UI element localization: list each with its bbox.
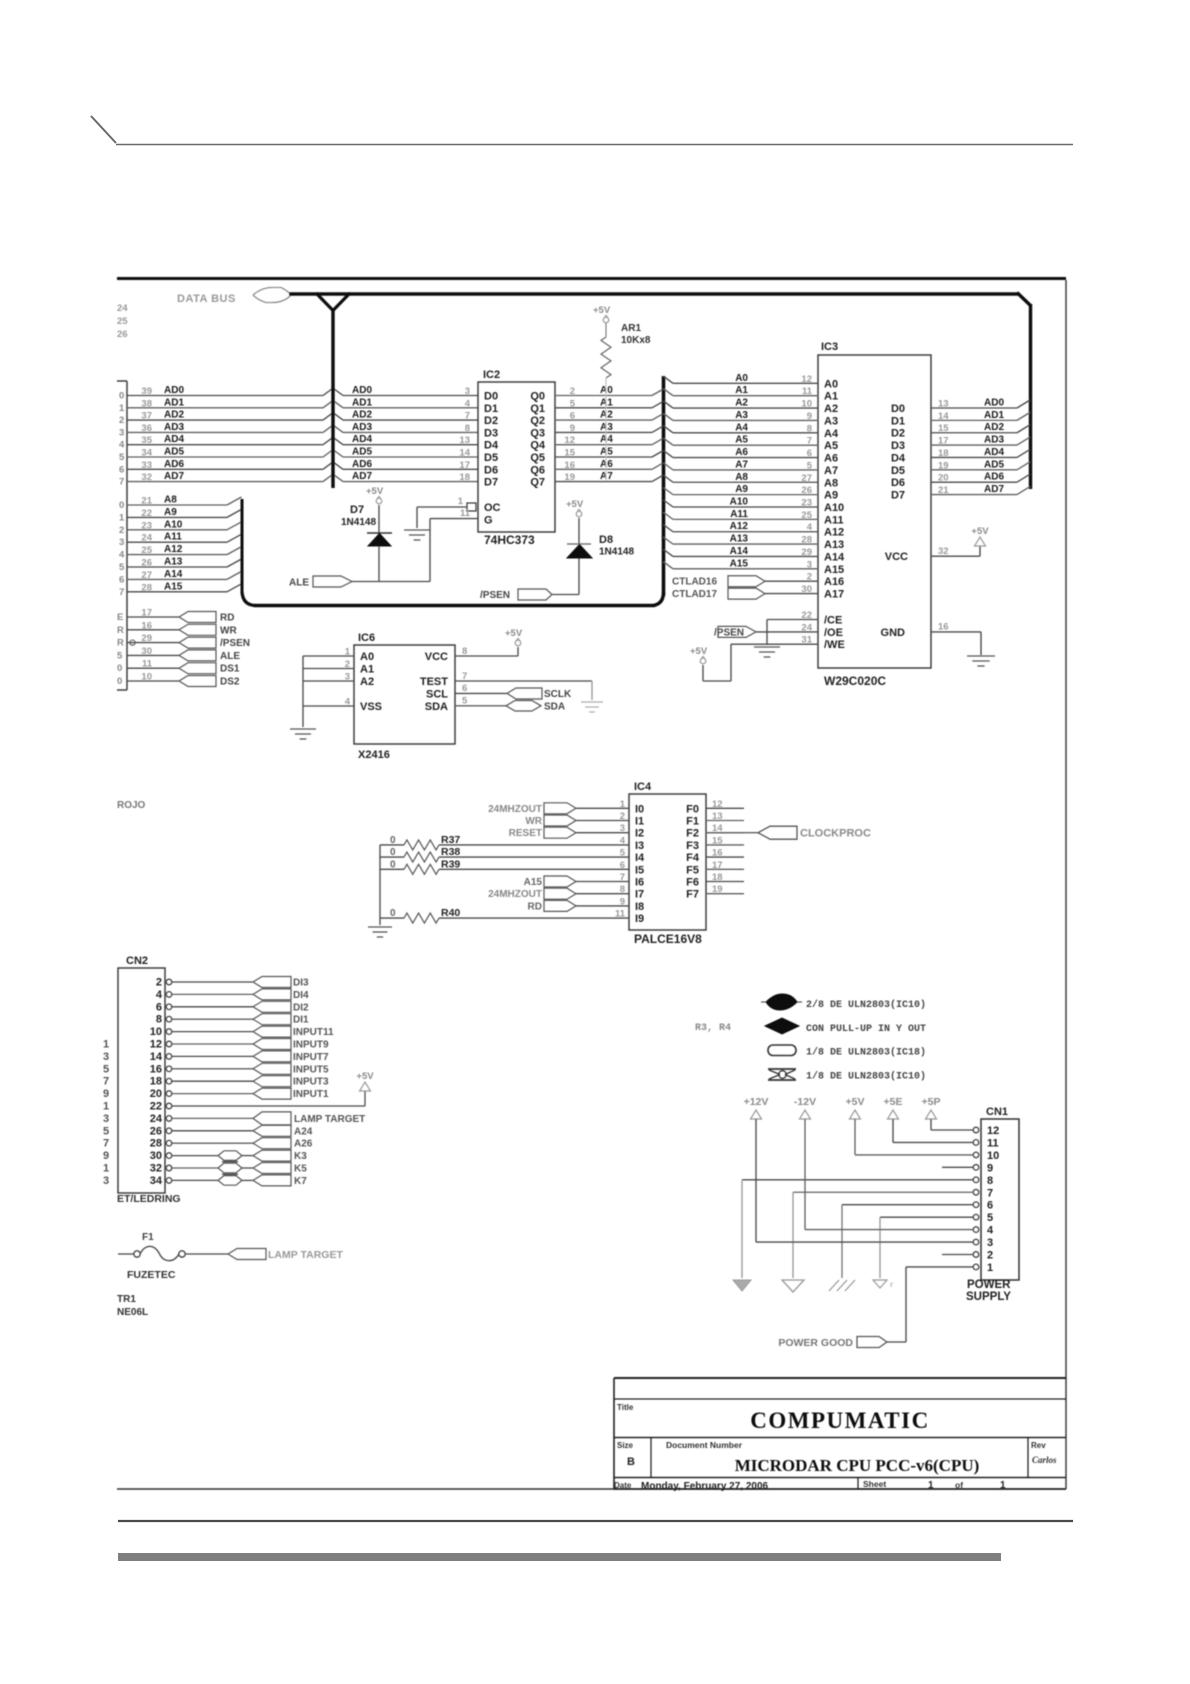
svg-text:I6: I6 <box>635 877 644 889</box>
svg-text:9: 9 <box>987 1162 993 1174</box>
svg-text:10: 10 <box>987 1150 999 1162</box>
svg-text:21: 21 <box>141 496 152 507</box>
svg-text:AD5: AD5 <box>984 459 1004 470</box>
svg-text:AD5: AD5 <box>164 447 184 458</box>
svg-text:Date: Date <box>614 1481 632 1490</box>
svg-text:33: 33 <box>141 460 152 471</box>
svg-text:F5: F5 <box>686 864 699 876</box>
svg-text:AD1: AD1 <box>352 397 372 408</box>
svg-text:3: 3 <box>465 386 470 397</box>
svg-text:A2: A2 <box>360 676 374 688</box>
svg-text:D2: D2 <box>891 428 905 440</box>
svg-text:AD2: AD2 <box>984 422 1004 433</box>
svg-text:WR: WR <box>525 816 542 827</box>
svg-text:A6: A6 <box>600 459 613 470</box>
svg-text:A11: A11 <box>164 532 182 543</box>
svg-text:NE06L: NE06L <box>117 1307 148 1318</box>
svg-text:Rev: Rev <box>1031 1441 1046 1450</box>
svg-text:0: 0 <box>117 663 122 674</box>
svg-text:POWER: POWER <box>967 1279 1011 1291</box>
svg-text:A1: A1 <box>824 391 838 403</box>
svg-text:I4: I4 <box>635 852 645 864</box>
svg-text:32: 32 <box>938 546 949 557</box>
svg-text:5: 5 <box>117 650 123 661</box>
svg-text:24: 24 <box>141 533 152 544</box>
svg-text:R3, R4: R3, R4 <box>695 1023 731 1034</box>
svg-text:AD7: AD7 <box>352 471 372 482</box>
svg-text:1: 1 <box>1000 1480 1006 1491</box>
svg-text:DS1: DS1 <box>220 664 240 675</box>
svg-text:A1: A1 <box>360 664 374 676</box>
svg-text:SCL: SCL <box>426 688 448 700</box>
svg-text:INPUT9: INPUT9 <box>293 1040 329 1051</box>
svg-text:ALE: ALE <box>220 651 240 662</box>
svg-text:26: 26 <box>141 558 152 569</box>
svg-text:18: 18 <box>150 1076 162 1088</box>
svg-text:IC2: IC2 <box>483 369 500 381</box>
svg-text:30: 30 <box>150 1150 162 1162</box>
svg-text:COMPUMATIC: COMPUMATIC <box>750 1408 929 1433</box>
svg-text:AD4: AD4 <box>984 447 1004 458</box>
svg-text:I5: I5 <box>635 864 644 876</box>
svg-text:D6: D6 <box>891 477 905 489</box>
svg-text:1: 1 <box>458 496 464 507</box>
svg-text:D0: D0 <box>891 403 905 415</box>
svg-text:5: 5 <box>807 460 813 471</box>
svg-text:9: 9 <box>103 1088 109 1100</box>
svg-text:6: 6 <box>119 464 124 475</box>
svg-text:+5V: +5V <box>846 1096 865 1108</box>
svg-text:AD1: AD1 <box>984 410 1004 421</box>
svg-text:5: 5 <box>987 1212 993 1224</box>
svg-text:0: 0 <box>117 676 122 687</box>
svg-text:A8: A8 <box>164 495 177 506</box>
svg-text:4: 4 <box>156 989 163 1001</box>
svg-text:A26: A26 <box>294 1139 313 1150</box>
svg-text:D3: D3 <box>484 427 498 439</box>
svg-text:15: 15 <box>938 423 949 434</box>
svg-text:5: 5 <box>119 452 125 463</box>
svg-text:I2: I2 <box>635 828 644 840</box>
svg-text:Monday, February 27, 2006: Monday, February 27, 2006 <box>641 1481 769 1492</box>
svg-text:AD6: AD6 <box>164 459 184 470</box>
svg-text:34: 34 <box>150 1175 163 1187</box>
svg-text:+5V: +5V <box>690 646 708 657</box>
svg-text:A13: A13 <box>164 557 183 568</box>
svg-text:5: 5 <box>103 1063 109 1075</box>
svg-text:1: 1 <box>987 1262 993 1274</box>
svg-text:11: 11 <box>142 659 153 670</box>
svg-text:A10: A10 <box>824 502 844 514</box>
svg-text:7: 7 <box>987 1187 993 1199</box>
svg-text:B: B <box>627 1456 635 1468</box>
svg-text:4: 4 <box>987 1225 994 1237</box>
svg-text:R39: R39 <box>441 858 460 870</box>
svg-text:A0: A0 <box>600 385 613 396</box>
svg-text:2: 2 <box>156 977 162 989</box>
svg-text:A4: A4 <box>600 434 613 445</box>
svg-text:/PSEN: /PSEN <box>220 638 250 649</box>
svg-text:AD0: AD0 <box>164 385 184 396</box>
svg-text:12: 12 <box>564 435 575 446</box>
svg-text:D3: D3 <box>891 440 905 452</box>
svg-text:R: R <box>117 638 124 649</box>
svg-text:A24: A24 <box>294 1126 313 1137</box>
svg-text:CTLAD17: CTLAD17 <box>672 589 717 600</box>
svg-text:27: 27 <box>801 473 812 484</box>
svg-text:DI1: DI1 <box>293 1015 309 1026</box>
svg-text:AD2: AD2 <box>164 410 184 421</box>
svg-text:RD: RD <box>220 613 234 624</box>
svg-text:G: G <box>484 515 493 527</box>
svg-text:-12V: -12V <box>794 1096 816 1108</box>
svg-text:A3: A3 <box>600 422 613 433</box>
svg-text:2: 2 <box>570 386 575 397</box>
svg-text:D0: D0 <box>484 391 498 403</box>
svg-text:14: 14 <box>459 448 470 459</box>
svg-text:F0: F0 <box>686 803 699 815</box>
svg-text:Title: Title <box>617 1403 634 1412</box>
svg-text:K3: K3 <box>294 1151 307 1162</box>
svg-text:AD0: AD0 <box>984 398 1004 409</box>
svg-text:D1: D1 <box>484 403 498 415</box>
svg-text:Q4: Q4 <box>530 440 546 452</box>
svg-text:D7: D7 <box>891 490 905 502</box>
svg-text:Q0: Q0 <box>530 391 545 403</box>
svg-text:r: r <box>890 1280 893 1289</box>
svg-text:12: 12 <box>801 374 812 385</box>
svg-text:3: 3 <box>119 427 124 438</box>
svg-text:D1: D1 <box>891 415 905 427</box>
svg-text:29: 29 <box>801 547 812 558</box>
svg-text:A10: A10 <box>164 519 183 530</box>
svg-text:13: 13 <box>938 399 949 410</box>
svg-text:8: 8 <box>156 1014 162 1026</box>
svg-text:A14: A14 <box>164 569 183 580</box>
svg-text:INPUT3: INPUT3 <box>293 1077 329 1088</box>
svg-text:/PSEN: /PSEN <box>480 590 510 601</box>
svg-text:R38: R38 <box>441 846 460 858</box>
svg-text:+12V: +12V <box>744 1096 769 1108</box>
svg-text:A5: A5 <box>600 447 613 458</box>
svg-text:8: 8 <box>987 1175 993 1187</box>
svg-text:23: 23 <box>141 520 152 531</box>
svg-text:A6: A6 <box>735 447 748 458</box>
svg-text:A10: A10 <box>730 497 749 508</box>
svg-text:AD0: AD0 <box>352 385 372 396</box>
svg-text:7: 7 <box>807 436 812 447</box>
svg-text:F2: F2 <box>686 828 699 840</box>
svg-text:DI2: DI2 <box>293 1002 309 1013</box>
svg-text:13: 13 <box>459 435 470 446</box>
svg-text:I1: I1 <box>635 816 644 828</box>
svg-text:11: 11 <box>802 386 813 397</box>
svg-text:5: 5 <box>570 398 576 409</box>
svg-text:2: 2 <box>119 525 124 536</box>
svg-text:F7: F7 <box>686 889 699 901</box>
svg-text:AD7: AD7 <box>984 484 1004 495</box>
svg-text:Q5: Q5 <box>530 452 545 464</box>
svg-text:1: 1 <box>103 1101 109 1113</box>
svg-text:20: 20 <box>150 1088 162 1100</box>
svg-text:1: 1 <box>103 1039 109 1051</box>
svg-text:16: 16 <box>150 1063 162 1075</box>
svg-text:2: 2 <box>987 1250 993 1262</box>
svg-text:A7: A7 <box>735 459 748 470</box>
svg-text:28: 28 <box>141 582 152 593</box>
svg-text:X2416: X2416 <box>358 749 390 761</box>
svg-text:F1: F1 <box>142 1232 154 1243</box>
svg-text:CLOCKPROC: CLOCKPROC <box>800 828 871 840</box>
svg-text:ALE: ALE <box>289 578 309 589</box>
svg-text:CTLAD16: CTLAD16 <box>672 577 717 588</box>
svg-text:+5V: +5V <box>566 499 584 510</box>
svg-text:26: 26 <box>117 329 128 340</box>
svg-text:D7: D7 <box>484 477 498 489</box>
svg-text:6: 6 <box>807 448 812 459</box>
svg-text:A4: A4 <box>735 422 748 433</box>
svg-text:A2: A2 <box>824 403 838 415</box>
svg-text:24: 24 <box>150 1113 163 1125</box>
svg-text:D6: D6 <box>484 464 498 476</box>
svg-text:W29C020C: W29C020C <box>824 674 886 688</box>
svg-text:SDA: SDA <box>544 702 565 713</box>
svg-text:1/8 DE ULN2803(IC10): 1/8 DE ULN2803(IC10) <box>806 1070 926 1082</box>
svg-text:A12: A12 <box>824 527 844 539</box>
svg-text:R37: R37 <box>441 834 460 846</box>
svg-text:POWER GOOD: POWER GOOD <box>778 1337 853 1349</box>
svg-text:GND: GND <box>881 627 906 639</box>
svg-text:1: 1 <box>119 403 125 414</box>
svg-text:10: 10 <box>801 399 812 410</box>
svg-text:A5: A5 <box>824 440 838 452</box>
svg-text:ET/LEDRING: ET/LEDRING <box>117 1193 181 1205</box>
svg-text:5: 5 <box>103 1125 109 1137</box>
svg-text:30: 30 <box>801 584 812 595</box>
svg-text:7: 7 <box>119 587 124 598</box>
svg-text:Q2: Q2 <box>530 415 545 427</box>
svg-text:D7: D7 <box>350 504 364 516</box>
svg-text:7: 7 <box>103 1138 109 1150</box>
svg-text:15: 15 <box>564 448 575 459</box>
svg-text:A7: A7 <box>600 471 613 482</box>
svg-text:11: 11 <box>987 1137 999 1149</box>
svg-text:SUPPLY: SUPPLY <box>966 1291 1011 1303</box>
svg-text:CN2: CN2 <box>126 955 148 967</box>
svg-text:D2: D2 <box>484 415 498 427</box>
svg-text:8: 8 <box>462 646 467 657</box>
svg-text:27: 27 <box>141 570 152 581</box>
svg-text:A7: A7 <box>824 465 838 477</box>
svg-text:A9: A9 <box>164 507 177 518</box>
svg-text:PALCE16V8: PALCE16V8 <box>634 932 702 946</box>
svg-text:of: of <box>955 1480 963 1490</box>
svg-text:TR1: TR1 <box>117 1294 136 1305</box>
svg-text:25: 25 <box>117 316 128 327</box>
svg-text:A15: A15 <box>164 581 183 592</box>
svg-text:VSS: VSS <box>360 701 382 713</box>
svg-text:4: 4 <box>119 550 125 561</box>
svg-text:D8: D8 <box>599 534 613 546</box>
svg-text:38: 38 <box>141 398 152 409</box>
svg-text:A9: A9 <box>824 490 838 502</box>
svg-text:15: 15 <box>712 835 723 846</box>
svg-text:4: 4 <box>119 440 125 451</box>
svg-text:37: 37 <box>141 411 152 422</box>
svg-text:AD3: AD3 <box>352 422 372 433</box>
svg-text:WR: WR <box>220 625 237 636</box>
svg-text:K7: K7 <box>294 1176 307 1187</box>
svg-text:A13: A13 <box>824 539 844 551</box>
svg-text:A6: A6 <box>824 453 838 465</box>
svg-text:Q7: Q7 <box>530 477 545 489</box>
svg-text:+5V: +5V <box>971 526 989 537</box>
svg-text:VCC: VCC <box>425 651 448 663</box>
svg-text:TEST: TEST <box>420 676 448 688</box>
svg-text:10: 10 <box>141 672 152 683</box>
svg-text:Sheet: Sheet <box>863 1479 886 1489</box>
svg-text:A4: A4 <box>824 428 839 440</box>
svg-text:A0: A0 <box>360 651 374 663</box>
svg-text:AD3: AD3 <box>984 435 1004 446</box>
svg-text:2: 2 <box>119 415 124 426</box>
svg-text:D4: D4 <box>484 440 499 452</box>
svg-text:35: 35 <box>141 435 152 446</box>
svg-text:A8: A8 <box>824 477 838 489</box>
svg-text:19: 19 <box>564 472 575 483</box>
svg-text:AD5: AD5 <box>352 447 372 458</box>
svg-text:AR1: AR1 <box>621 323 641 334</box>
svg-text:I8: I8 <box>635 901 644 913</box>
svg-text:IC3: IC3 <box>821 341 838 353</box>
svg-text:F4: F4 <box>686 852 700 864</box>
svg-text:A12: A12 <box>730 521 749 532</box>
svg-text:16: 16 <box>938 622 949 633</box>
svg-text:23: 23 <box>801 498 812 509</box>
svg-text:A0: A0 <box>735 373 748 384</box>
svg-text:3: 3 <box>103 1051 109 1063</box>
svg-text:32: 32 <box>150 1163 162 1175</box>
svg-text:A16: A16 <box>824 576 844 588</box>
svg-text:17: 17 <box>141 608 152 619</box>
svg-text:12: 12 <box>987 1125 999 1137</box>
svg-text:29: 29 <box>141 633 152 644</box>
svg-text:A2: A2 <box>735 398 748 409</box>
svg-text:17: 17 <box>938 436 949 447</box>
svg-text:19: 19 <box>938 460 949 471</box>
svg-text:Q3: Q3 <box>530 427 545 439</box>
svg-text:INPUT11: INPUT11 <box>293 1027 334 1038</box>
svg-text:Document Number: Document Number <box>666 1440 743 1450</box>
svg-text:+5V: +5V <box>366 486 384 497</box>
svg-text:/OE: /OE <box>824 627 843 639</box>
svg-text:DI4: DI4 <box>293 990 309 1001</box>
svg-text:DS2: DS2 <box>220 677 240 688</box>
svg-text:9: 9 <box>570 423 575 434</box>
svg-text:A12: A12 <box>164 544 183 555</box>
svg-text:7: 7 <box>103 1076 109 1088</box>
svg-text:Q1: Q1 <box>530 403 545 415</box>
svg-text:74HC373: 74HC373 <box>484 533 535 547</box>
svg-text:D5: D5 <box>891 465 905 477</box>
svg-text:AD4: AD4 <box>164 434 184 445</box>
svg-text:25: 25 <box>801 510 812 521</box>
svg-text:16: 16 <box>712 848 723 859</box>
svg-text:A3: A3 <box>735 410 748 421</box>
svg-text:E: E <box>117 612 123 623</box>
svg-text:AD7: AD7 <box>164 471 184 482</box>
svg-text:17: 17 <box>459 460 470 471</box>
svg-text:A0: A0 <box>824 378 838 390</box>
svg-text:12: 12 <box>712 799 723 810</box>
svg-text:3: 3 <box>103 1113 109 1125</box>
svg-text:6: 6 <box>987 1200 993 1212</box>
svg-text:1N4148: 1N4148 <box>599 547 634 558</box>
svg-text:CN1: CN1 <box>986 1106 1008 1118</box>
svg-text:8: 8 <box>807 423 812 434</box>
svg-text:1: 1 <box>103 1163 109 1175</box>
svg-text:18: 18 <box>459 472 470 483</box>
svg-text:36: 36 <box>141 423 152 434</box>
svg-text:4: 4 <box>807 522 813 533</box>
svg-text:MICRODAR CPU PCC-v6(CPU): MICRODAR CPU PCC-v6(CPU) <box>735 1456 980 1475</box>
svg-text:A5: A5 <box>735 435 748 446</box>
svg-text:D4: D4 <box>891 452 906 464</box>
svg-text:/WE: /WE <box>824 639 845 651</box>
svg-text:A14: A14 <box>824 551 845 563</box>
svg-text:21: 21 <box>938 485 949 496</box>
svg-text:CON PULL-UP IN Y OUT: CON PULL-UP IN Y OUT <box>806 1024 926 1035</box>
svg-text:AD6: AD6 <box>352 459 372 470</box>
svg-text:28: 28 <box>801 535 812 546</box>
svg-text:A11: A11 <box>730 509 748 520</box>
svg-text:R40: R40 <box>441 907 460 919</box>
svg-text:32: 32 <box>141 472 152 483</box>
svg-text:24MHZOUT: 24MHZOUT <box>488 889 542 900</box>
svg-text:26: 26 <box>801 485 812 496</box>
svg-text:DATA BUS: DATA BUS <box>177 293 236 305</box>
svg-text:FUZETEC: FUZETEC <box>127 1269 176 1281</box>
svg-text:11: 11 <box>460 508 471 519</box>
svg-text:INPUT7: INPUT7 <box>293 1052 329 1063</box>
svg-text:+5V: +5V <box>593 305 611 316</box>
svg-text:F1: F1 <box>686 816 699 828</box>
svg-text:12: 12 <box>150 1039 162 1051</box>
svg-text:9: 9 <box>103 1150 109 1162</box>
svg-text:17: 17 <box>712 860 723 871</box>
svg-text:/CE: /CE <box>824 615 842 627</box>
svg-text:LAMP TARGET: LAMP TARGET <box>294 1114 365 1125</box>
svg-text:AD2: AD2 <box>352 410 372 421</box>
svg-text:RD: RD <box>528 901 542 912</box>
svg-text:A15: A15 <box>730 558 749 569</box>
svg-text:8: 8 <box>465 423 470 434</box>
svg-text:7: 7 <box>465 411 470 422</box>
svg-text:16: 16 <box>141 620 152 631</box>
svg-text:AD6: AD6 <box>984 472 1004 483</box>
svg-text:10: 10 <box>150 1026 162 1038</box>
svg-text:1: 1 <box>119 512 125 523</box>
svg-text:14: 14 <box>938 411 949 422</box>
svg-text:1N4148: 1N4148 <box>341 517 376 528</box>
svg-text:30: 30 <box>141 646 152 657</box>
svg-text:A13: A13 <box>730 534 749 545</box>
svg-text:6: 6 <box>570 411 575 422</box>
svg-text:A2: A2 <box>600 410 613 421</box>
svg-text:2/8 DE ULN2803(IC10): 2/8 DE ULN2803(IC10) <box>806 999 926 1011</box>
svg-text:18: 18 <box>712 872 723 883</box>
svg-text:24MHZOUT: 24MHZOUT <box>488 804 542 815</box>
